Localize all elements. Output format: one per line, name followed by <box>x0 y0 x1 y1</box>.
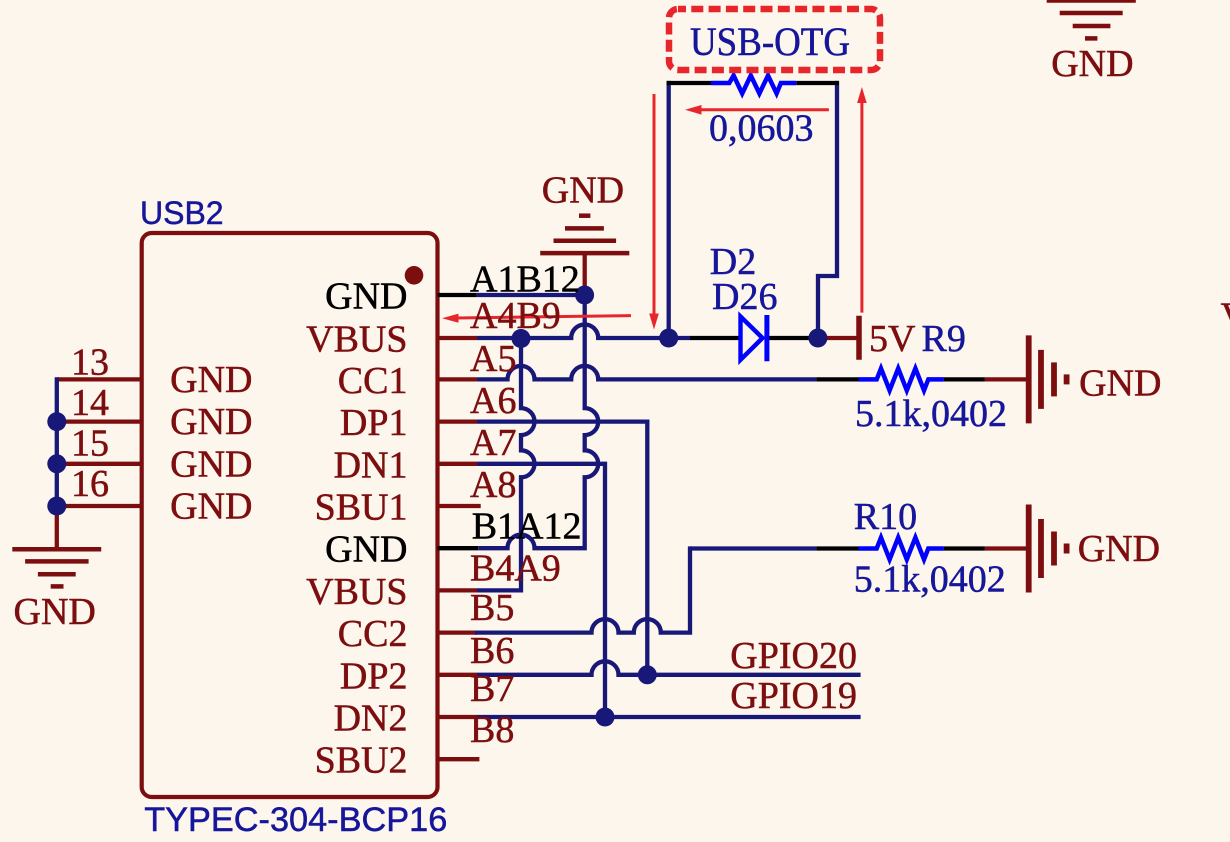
wire OTG loop right vertical with jog <box>818 83 837 338</box>
wire GND1 net to junction <box>477 293 585 297</box>
svg-text:GPIO19: GPIO19 <box>730 675 857 717</box>
svg-text:B7: B7 <box>470 668 514 710</box>
svg-text:DP1: DP1 <box>340 402 408 444</box>
junction dot pin16 <box>47 497 66 516</box>
svg-text:DN1: DN1 <box>334 444 408 486</box>
red arrow up at OTG right <box>857 87 867 313</box>
wire OTG top-left black <box>667 81 711 85</box>
pin B6 DP2 stub <box>438 673 478 677</box>
wire DN2 GPIO19 row <box>477 715 861 719</box>
resistor 0,0603 body <box>711 76 796 94</box>
pin 15 <box>57 462 141 466</box>
red arrow left over A4B9 <box>442 314 631 323</box>
svg-text:5.1k,0402: 5.1k,0402 <box>855 393 1007 435</box>
svg-text:B1A12: B1A12 <box>472 506 582 548</box>
svg-text:GND: GND <box>542 170 624 212</box>
component U USB2 body <box>142 233 438 797</box>
svg-text:GND: GND <box>325 529 407 571</box>
red arrow down at OTG left <box>649 94 659 330</box>
wire to 5V power tick <box>818 336 857 340</box>
svg-text:5V: 5V <box>869 318 916 360</box>
wire R9 to GND symbol <box>985 377 1027 381</box>
svg-text:GND: GND <box>1051 43 1133 85</box>
svg-text:DN2: DN2 <box>334 698 408 740</box>
wire GND2 net with hop over V1 and up V2 to GND1 junction <box>478 295 598 548</box>
svg-text:15: 15 <box>71 422 109 464</box>
junction dot VBUS <box>512 329 531 348</box>
wire diode anode black <box>690 336 740 340</box>
wire R10 to GND symbol <box>985 546 1027 550</box>
diode D2 D26 <box>741 315 767 361</box>
svg-text:13: 13 <box>71 341 109 383</box>
svg-text:GND: GND <box>1079 363 1161 405</box>
ground symbol top-right <box>1047 1 1136 39</box>
red arrow left under resistor <box>685 105 829 115</box>
svg-text:GND: GND <box>170 359 252 401</box>
ground symbol right of R9 (rotated) <box>1029 335 1067 423</box>
svg-text:SBU2: SBU2 <box>315 740 408 782</box>
pin A1B12 GND stub <box>438 293 477 297</box>
svg-text:GPIO20: GPIO20 <box>730 635 857 677</box>
junction dot GPIO20 <box>638 665 657 684</box>
svg-text:DP2: DP2 <box>340 655 408 697</box>
5V power bar <box>856 316 862 360</box>
pin B8 SBU2 stub <box>438 757 480 761</box>
junction dot OTG right <box>808 329 827 348</box>
svg-text:A8: A8 <box>470 464 516 506</box>
svg-text:GND: GND <box>14 591 96 633</box>
pin 16 <box>57 504 141 508</box>
junction dot pin15 <box>47 454 66 473</box>
svg-text:14: 14 <box>71 382 109 424</box>
ground symbol left-bottom <box>12 549 101 586</box>
svg-text:USB2: USB2 <box>140 195 224 231</box>
wire CC1 row with hops over V1 and V2 <box>477 366 816 380</box>
svg-text:R10: R10 <box>854 496 917 538</box>
pin A4B9 VBUS stub <box>438 336 478 340</box>
pin A7 DN1 stub <box>438 462 478 466</box>
svg-text:R9: R9 <box>922 318 966 360</box>
svg-text:USB-OTG: USB-OTG <box>690 19 850 64</box>
pin 13 <box>57 377 141 381</box>
pin B5 CC2 stub <box>438 630 478 634</box>
wire OTG top-right black <box>796 81 839 85</box>
resistor R9 body <box>859 368 944 390</box>
pin A5 CC1 stub <box>438 377 478 381</box>
svg-text:TYPEC-304-BCP16: TYPEC-304-BCP16 <box>144 801 447 839</box>
svg-text:B8: B8 <box>470 709 514 751</box>
svg-text:GND: GND <box>170 443 252 485</box>
wire left GND stem <box>55 506 59 548</box>
resistor R10 body <box>859 538 944 560</box>
svg-text:GND: GND <box>170 401 252 443</box>
resistor R9 pin1 black <box>816 377 858 381</box>
wire diode cathode black <box>769 336 818 340</box>
wire GND symbol stem top-center <box>583 254 587 295</box>
svg-text:GND: GND <box>325 276 407 318</box>
wire VBUS to diode anode navy part <box>669 336 690 340</box>
pin B7 DN2 stub <box>438 715 478 719</box>
svg-text:CC1: CC1 <box>338 360 408 402</box>
svg-text:VBUS: VBUS <box>306 319 407 361</box>
svg-text:GND: GND <box>1078 528 1160 570</box>
junction dot GND1 <box>575 286 594 305</box>
svg-text:B4A9: B4A9 <box>470 548 561 590</box>
pin A8 SBU1 stub <box>438 504 481 508</box>
svg-text:16: 16 <box>71 463 109 505</box>
junction dot GPIO19 <box>596 708 615 727</box>
wire VBUS2 up V1 to VBUS junction <box>477 338 535 590</box>
wire OTG loop left vertical <box>667 83 671 338</box>
svg-text:B6: B6 <box>470 630 514 672</box>
USB-OTG dashed red box <box>669 9 880 70</box>
wire DP2 GPIO20 row with hop over V3 <box>477 661 861 675</box>
svg-text:A5: A5 <box>470 338 516 380</box>
svg-text:CC2: CC2 <box>338 613 408 655</box>
wire R10 row navy <box>690 546 816 550</box>
junction dot OTG left <box>659 329 678 348</box>
ground symbol right of R10 (rotated) <box>1029 505 1067 593</box>
resistor R9 pin2 black <box>944 377 985 381</box>
svg-text:VBUS: VBUS <box>306 571 407 613</box>
svg-text:B5: B5 <box>470 587 514 629</box>
resistor R10 pin2 black <box>944 546 985 550</box>
svg-text:5.1k,0402: 5.1k,0402 <box>854 559 1006 601</box>
pin A6 DP1 stub <box>438 419 478 423</box>
pin 14 <box>57 419 141 423</box>
pin1 marker red dot <box>405 266 424 285</box>
wire GND2 B1A12 black stub <box>438 546 479 550</box>
wire left GND bus vertical <box>55 379 59 506</box>
ground symbol top-center (flipped) <box>540 216 629 253</box>
wire DN1 right and down V3 to GPIO19 junction <box>477 464 605 717</box>
svg-text:A4B9: A4B9 <box>470 295 561 337</box>
svg-text:A6: A6 <box>470 380 516 422</box>
resistor R10 pin1 black <box>816 546 858 550</box>
svg-text:SBU1: SBU1 <box>315 487 408 529</box>
svg-text:D26: D26 <box>712 276 777 318</box>
svg-text:A7: A7 <box>470 422 516 464</box>
wire CC2 row with hops over V3 V4 then up to R10 row <box>477 549 690 633</box>
wire VBUS row with hop over V2 <box>477 325 669 339</box>
wire DP1 right and down V4 to GPIO20 junction <box>477 422 647 675</box>
svg-text:GND: GND <box>170 486 252 528</box>
svg-text:VB: VB <box>1221 295 1230 337</box>
pin B4A9 VBUS2 stub <box>438 588 478 592</box>
junction dot pin14 <box>47 412 66 431</box>
svg-text:0,0603: 0,0603 <box>709 108 814 150</box>
